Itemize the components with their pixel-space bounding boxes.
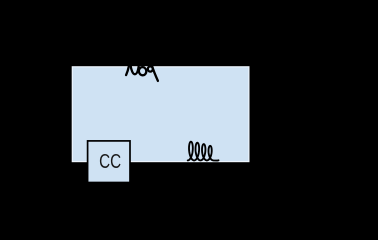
inductor L1 (hand-drawn coil on bottom edge) (188, 142, 219, 161)
resistor R1 (hand-drawn squiggle on top edge) (126, 66, 158, 81)
node block (shaded region) (72, 67, 249, 162)
component CC (box on bottom-left) (88, 141, 130, 183)
svg-text:CC: CC (99, 151, 121, 173)
